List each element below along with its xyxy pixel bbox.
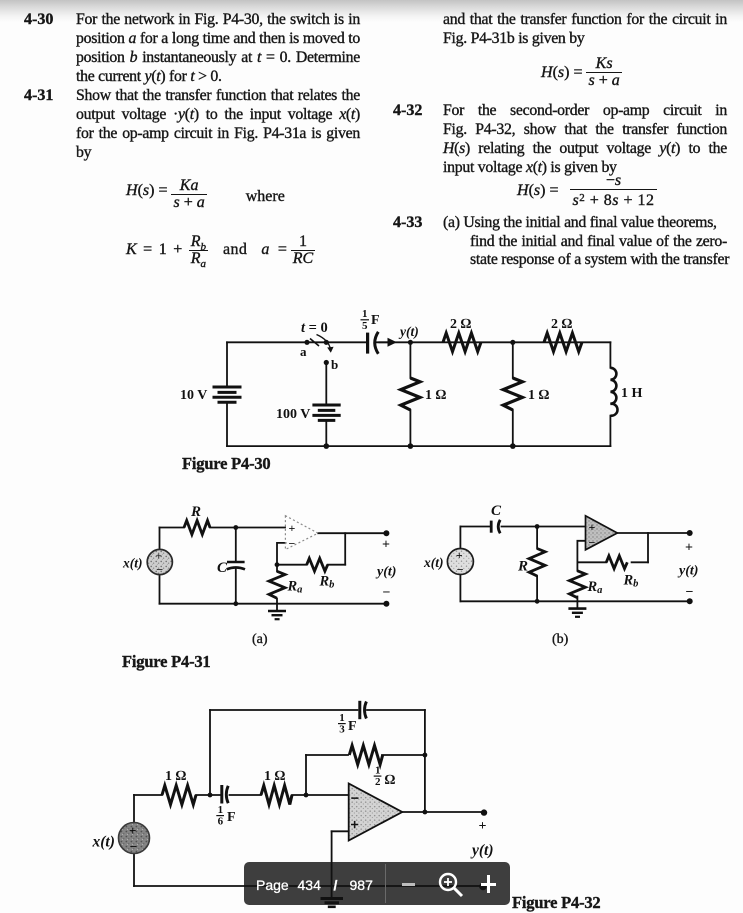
svg-text:1 H: 1 H bbox=[621, 386, 643, 401]
svg-text:+: + bbox=[351, 818, 359, 834]
svg-text:+: + bbox=[129, 823, 136, 838]
svg-text:−: − bbox=[130, 839, 137, 854]
svg-text:R: R bbox=[517, 559, 528, 575]
svg-text:+: + bbox=[685, 541, 693, 556]
svg-text:2 Ω: 2 Ω bbox=[551, 317, 573, 332]
svg-text:1 Ω: 1 Ω bbox=[425, 388, 447, 403]
svg-text:+: + bbox=[289, 521, 296, 535]
svg-text:−: − bbox=[457, 563, 464, 577]
svg-text:10 V: 10 V bbox=[180, 388, 207, 403]
svg-text:R: R bbox=[190, 504, 201, 520]
svg-text:x(t): x(t) bbox=[122, 556, 143, 571]
svg-text:5: 5 bbox=[362, 320, 368, 332]
svg-text:−: − bbox=[686, 585, 694, 600]
svg-text:1 Ω: 1 Ω bbox=[528, 388, 550, 403]
svg-text:Rb: Rb bbox=[623, 573, 639, 590]
svg-text:Ra: Ra bbox=[587, 579, 603, 596]
svg-text:−: − bbox=[589, 536, 596, 550]
svg-text:Ω: Ω bbox=[385, 773, 396, 788]
svg-text:1: 1 bbox=[375, 765, 381, 777]
svg-text:2: 2 bbox=[375, 776, 381, 788]
svg-text:+: + bbox=[589, 520, 596, 534]
svg-text:y(t): y(t) bbox=[470, 842, 494, 859]
svg-text:F: F bbox=[348, 719, 357, 734]
svg-text:+: + bbox=[479, 819, 487, 834]
svg-text:−: − bbox=[289, 536, 296, 550]
svg-text:2 Ω: 2 Ω bbox=[450, 317, 472, 332]
svg-text:1: 1 bbox=[218, 804, 224, 816]
svg-text:F: F bbox=[227, 810, 236, 825]
svg-text:−: − bbox=[351, 791, 359, 807]
svg-text:+: + bbox=[456, 550, 463, 562]
svg-text:−: − bbox=[383, 586, 391, 601]
svg-text:y(t): y(t) bbox=[398, 324, 419, 339]
svg-text:C: C bbox=[491, 503, 502, 519]
svg-text:1: 1 bbox=[339, 712, 345, 724]
svg-text:+: + bbox=[382, 538, 390, 553]
svg-text:y(t): y(t) bbox=[677, 564, 698, 579]
svg-text:6: 6 bbox=[218, 816, 224, 828]
svg-text:a: a bbox=[300, 344, 307, 359]
svg-text:1 Ω: 1 Ω bbox=[165, 769, 187, 784]
svg-text:y(t): y(t) bbox=[375, 565, 396, 580]
svg-text:b: b bbox=[331, 357, 338, 372]
svg-text:Rb: Rb bbox=[319, 574, 335, 591]
svg-text:−: − bbox=[156, 563, 163, 577]
svg-text:+: + bbox=[156, 551, 162, 563]
svg-text:1: 1 bbox=[362, 308, 368, 320]
svg-text:x(t): x(t) bbox=[423, 555, 444, 570]
svg-text:3: 3 bbox=[339, 724, 345, 736]
svg-text:Ra: Ra bbox=[287, 579, 303, 596]
svg-text:F: F bbox=[371, 313, 380, 328]
svg-text:x(t): x(t) bbox=[92, 834, 115, 851]
svg-text:C: C bbox=[217, 560, 228, 576]
svg-text:t = 0: t = 0 bbox=[301, 320, 328, 336]
svg-text:1 Ω: 1 Ω bbox=[264, 769, 286, 784]
svg-text:100 V: 100 V bbox=[276, 407, 310, 422]
